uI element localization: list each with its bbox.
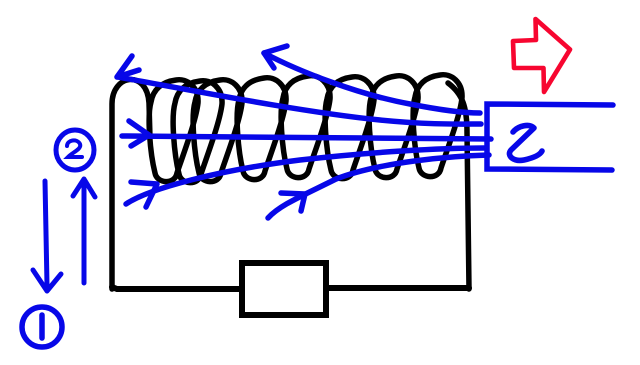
field line B1 (top, arrow at far left) (118, 77, 481, 124)
coil L1 turn 7 (369, 76, 418, 178)
magnet label S (509, 125, 542, 160)
field line B5 (bottom, arrow at middle) (268, 155, 489, 218)
coil L1 right lead (448, 83, 469, 289)
resistor R1 (242, 263, 326, 315)
coil L1 turn 8 (413, 75, 462, 177)
coil L1 turn 2 (173, 81, 222, 183)
coil L1 turn 6 (325, 77, 374, 179)
annotation arrow down (label 1 direction) (33, 181, 61, 291)
field line B2 (upper, arrow at top middle) (264, 53, 480, 113)
coil L1 turn 4 (237, 78, 286, 180)
field line B4 (lower, arrow at left) (126, 148, 484, 204)
arrowhead of field line B4 (131, 182, 157, 207)
arrowhead of field line B5 (281, 193, 305, 211)
arrowhead of field line B1 (117, 56, 139, 77)
arrowhead of field line B2 (264, 46, 287, 68)
coil L1 turn 5 (281, 76, 330, 178)
label node 2 (circled 2) (56, 130, 94, 170)
coil L1 left lead (candy-cane) (112, 79, 150, 289)
red arrow (magnet motion, pointing right) (513, 19, 570, 92)
annotation arrow up (label 2 direction) (73, 179, 95, 283)
arrowhead of field line B3 (129, 121, 149, 146)
magnet body (pole face) (487, 104, 613, 170)
wire bottom-right segment (328, 285, 469, 291)
coil L1 turn 3 (193, 80, 242, 182)
coil L1 turn 1 (149, 80, 198, 182)
field line B3 (middle axis) (122, 136, 491, 139)
wire bottom-left segment (112, 287, 240, 289)
label node 1 (circled 1) (22, 307, 62, 347)
